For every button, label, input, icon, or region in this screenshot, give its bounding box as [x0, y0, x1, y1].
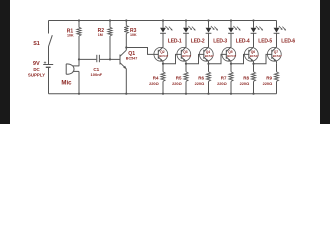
svg-text:LED-3: LED-3 — [213, 39, 227, 45]
svg-text:BC547: BC547 — [182, 54, 191, 58]
svg-text:R6: R6 — [198, 75, 204, 80]
svg-text:BC547: BC547 — [273, 54, 282, 58]
svg-text:1M: 1M — [98, 33, 103, 37]
svg-text:220Ω: 220Ω — [240, 81, 250, 86]
svg-text:BC547: BC547 — [250, 54, 259, 58]
svg-text:S1: S1 — [33, 41, 40, 47]
svg-text:100nF: 100nF — [91, 72, 103, 77]
svg-text:SUPPLY: SUPPLY — [28, 73, 45, 78]
svg-text:LED-5: LED-5 — [258, 39, 272, 45]
svg-text:220Ω: 220Ω — [263, 81, 273, 86]
svg-text:LED-6: LED-6 — [281, 39, 295, 45]
svg-text:LED-1: LED-1 — [168, 39, 182, 45]
svg-text:BC547: BC547 — [126, 56, 137, 60]
svg-text:10K: 10K — [130, 33, 137, 37]
svg-text:220Ω: 220Ω — [195, 81, 205, 86]
svg-text:BC547: BC547 — [205, 54, 214, 58]
svg-text:BC547: BC547 — [227, 54, 236, 58]
svg-text:BC547: BC547 — [159, 54, 168, 58]
svg-text:220Ω: 220Ω — [217, 81, 227, 86]
svg-text:R5: R5 — [176, 75, 182, 80]
svg-text:R4: R4 — [153, 75, 159, 80]
svg-text:LED-2: LED-2 — [191, 39, 205, 45]
svg-text:DC: DC — [33, 67, 40, 72]
svg-text:220Ω: 220Ω — [149, 81, 159, 86]
svg-text:LED-4: LED-4 — [236, 39, 250, 45]
svg-text:R7: R7 — [221, 75, 227, 80]
svg-text:R8: R8 — [243, 75, 249, 80]
svg-text:R9: R9 — [266, 75, 272, 80]
svg-text:220Ω: 220Ω — [172, 81, 182, 86]
svg-text:10K: 10K — [67, 33, 74, 37]
svg-text:Mic: Mic — [61, 79, 72, 86]
